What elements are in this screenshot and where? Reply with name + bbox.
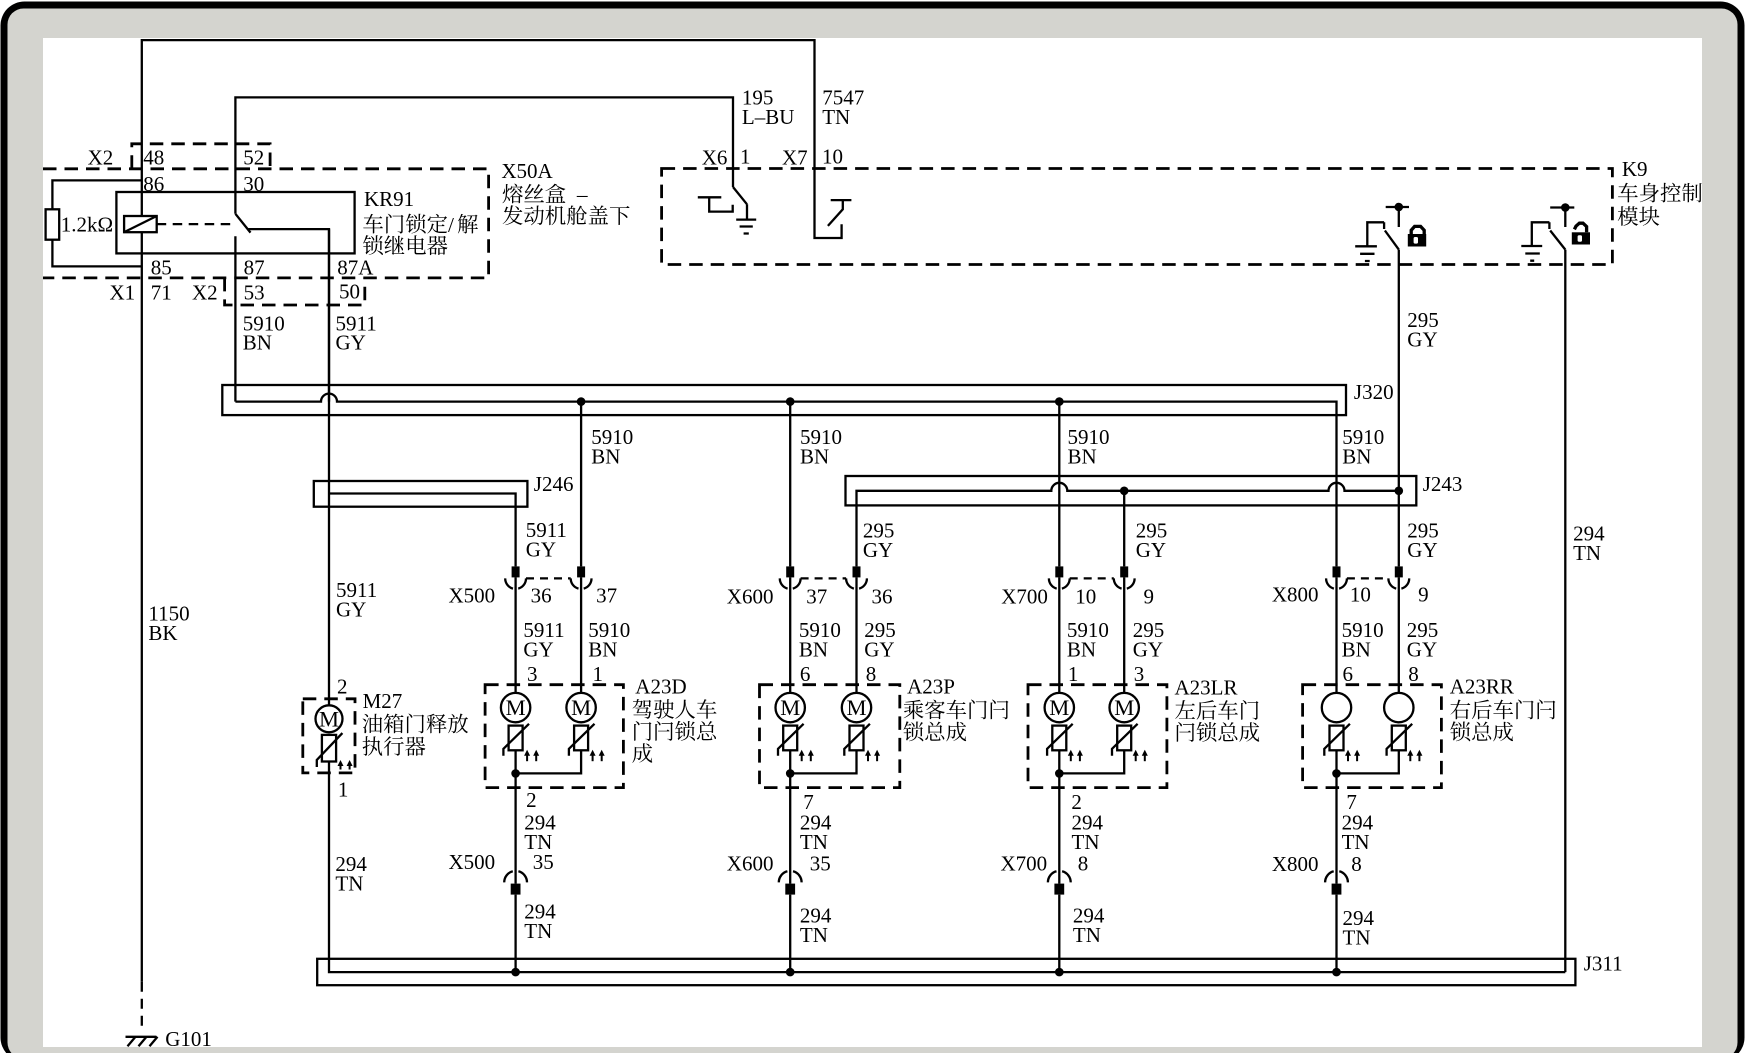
- connector X2 upper box (pins 48 52): [132, 144, 270, 169]
- splice J243 outer box: [846, 476, 1417, 505]
- connector X800 pin 8: [1325, 871, 1334, 882]
- svg-text:87A: 87A: [337, 256, 374, 280]
- svg-text:A23RR: A23RR: [1450, 675, 1514, 699]
- assembly A23RR boundary: [1303, 685, 1442, 788]
- svg-text:35: 35: [533, 850, 554, 874]
- svg-text:X600: X600: [727, 852, 774, 876]
- svg-text:X1: X1: [110, 281, 136, 305]
- svg-text:8: 8: [1351, 852, 1362, 876]
- A23P common return link: [790, 750, 856, 883]
- svg-text:–: –: [576, 183, 588, 207]
- assembly A23P boundary: [760, 685, 900, 788]
- svg-text:48: 48: [143, 146, 164, 170]
- K9 lock switch: fixed contact and ground: [1367, 222, 1384, 246]
- svg-text:8: 8: [1078, 852, 1089, 876]
- ground symbol under X6 switch: [736, 220, 756, 234]
- connector X800 (pins 10 9): [1333, 566, 1341, 577]
- A23P right motor: [842, 693, 871, 722]
- svg-text:BN: BN: [800, 445, 829, 469]
- A23D thermistors: [503, 724, 529, 756]
- svg-text:1: 1: [740, 145, 751, 169]
- A23D right motor: [566, 693, 595, 722]
- svg-text:X50A: X50A: [501, 159, 553, 183]
- svg-text:BN: BN: [588, 638, 617, 662]
- connector X700 pin 8: [1048, 871, 1057, 882]
- K9 unlock switch blade to 294 TN: [1550, 231, 1565, 250]
- assembly A23D boundary: [485, 685, 623, 788]
- A23RR right motor: [1384, 693, 1413, 722]
- K9 lock switch blade to 295 GY: [1385, 231, 1399, 250]
- relay coil KR91: [124, 216, 157, 232]
- svg-text:A23P: A23P: [907, 675, 955, 699]
- svg-text:8: 8: [1408, 662, 1419, 686]
- svg-text:J246: J246: [534, 472, 574, 496]
- svg-text:J311: J311: [1584, 952, 1623, 976]
- connector X500 (pins 36 37): [512, 566, 520, 577]
- ground G101: [126, 1037, 158, 1047]
- svg-text:10: 10: [1350, 583, 1371, 607]
- switch X7 contact and blade: [828, 200, 852, 226]
- svg-text:X700: X700: [1001, 585, 1048, 609]
- svg-text:GY: GY: [526, 538, 556, 562]
- svg-text:X500: X500: [449, 850, 496, 874]
- svg-text:X6: X6: [702, 146, 728, 170]
- svg-text:TN: TN: [1072, 830, 1100, 854]
- svg-text:9: 9: [1418, 583, 1429, 607]
- splice J246 outer box: [314, 481, 528, 507]
- wire: pin 52/30 feed, rail to X6 pin 1 (195 L-BU): [235, 97, 733, 213]
- switch X6 hood ajar (blade and ground): [733, 187, 747, 220]
- resistor R 1.2k ohm loop: [52, 180, 141, 266]
- svg-text:10: 10: [1075, 585, 1096, 609]
- svg-text:M: M: [319, 706, 339, 731]
- relay contact 87A branch: [248, 229, 329, 402]
- svg-text:TN: TN: [800, 830, 828, 854]
- open padlock icon (unlock): [1572, 223, 1590, 244]
- svg-text:J320: J320: [1354, 380, 1394, 404]
- svg-text:M: M: [846, 695, 866, 720]
- module K9 boundary: [662, 169, 1613, 265]
- svg-text:BN: BN: [1067, 638, 1096, 662]
- wire 5910 BN J320 to X600 pin 37: [789, 402, 791, 567]
- svg-text:2: 2: [337, 675, 348, 699]
- closed padlock icon (lock): [1408, 226, 1426, 246]
- splice J311 outer box: [317, 959, 1575, 985]
- svg-text:85: 85: [151, 256, 172, 280]
- A23LR right motor: [1110, 693, 1139, 722]
- connector X600 pin 35: [779, 871, 788, 882]
- K9 unlock switch: feed stub with junction: [1550, 208, 1574, 228]
- svg-text:M: M: [1114, 695, 1134, 720]
- A23D common return link: [516, 750, 582, 883]
- svg-text:BN: BN: [243, 331, 272, 355]
- svg-text:1: 1: [1068, 662, 1079, 686]
- wire 5910 BN J320 to X500 pin 37: [580, 402, 582, 567]
- M27 thermistor: [317, 733, 343, 767]
- A23D left motor: [501, 693, 530, 722]
- svg-text:10: 10: [822, 145, 843, 169]
- svg-text:M: M: [571, 695, 591, 720]
- wire 5910 BN J320 to X700 pin 10: [1058, 402, 1060, 567]
- svg-text:37: 37: [596, 584, 617, 608]
- K9 unlock switch: fixed contact and ground: [1532, 222, 1550, 246]
- svg-text:86: 86: [143, 172, 164, 196]
- svg-text:87: 87: [244, 256, 265, 280]
- svg-text:BN: BN: [1342, 445, 1371, 469]
- splice J320 internal bus wire with hop over 5911 GY: [235, 394, 1336, 483]
- svg-text:2: 2: [526, 788, 537, 812]
- svg-text:X800: X800: [1272, 583, 1319, 607]
- svg-text:8: 8: [866, 662, 877, 686]
- svg-text:M27: M27: [363, 689, 403, 713]
- wire 295 GY K9 lock switch to J243 to X800 pin 9: [1398, 250, 1400, 567]
- wire: relay coil to pin 85, X1 pin 71, 1150 BK down to G101: [141, 232, 143, 982]
- svg-text:TN: TN: [822, 105, 850, 129]
- actuator M27 boundary: [303, 699, 355, 773]
- svg-text:A23LR: A23LR: [1175, 676, 1238, 700]
- svg-text:GY: GY: [523, 638, 553, 662]
- splice J320 outer box: [222, 385, 1346, 415]
- svg-text:1: 1: [338, 778, 349, 802]
- wire: pin 48/86 feed, top rail to X7 pin 10 (7547 TN): [142, 40, 842, 238]
- svg-text:TN: TN: [1343, 926, 1371, 950]
- svg-text:K9: K9: [1622, 157, 1648, 181]
- svg-text:KR91: KR91: [364, 187, 414, 211]
- wire 295 GY J243 to X700 pin 9: [1123, 491, 1125, 567]
- svg-text:GY: GY: [1133, 638, 1163, 662]
- svg-text:X2: X2: [88, 146, 114, 170]
- relay KR91 body: [116, 192, 354, 253]
- svg-text:X600: X600: [727, 585, 774, 609]
- svg-text:J243: J243: [1423, 472, 1463, 496]
- relay coil-armature dashed link: [157, 223, 234, 225]
- svg-text:BN: BN: [1342, 638, 1371, 662]
- svg-text:1.2kΩ: 1.2kΩ: [61, 213, 113, 237]
- A23P thermistors: [778, 724, 804, 756]
- svg-text:GY: GY: [864, 638, 894, 662]
- svg-text:TN: TN: [524, 919, 552, 943]
- svg-text:50: 50: [339, 280, 360, 304]
- svg-text:35: 35: [810, 852, 831, 876]
- connector X700 (pins 10 9): [1055, 566, 1063, 577]
- svg-text:6: 6: [1343, 662, 1354, 686]
- svg-text:GY: GY: [1407, 538, 1437, 562]
- A23RR left motor: [1322, 693, 1351, 722]
- svg-text:A23D: A23D: [635, 675, 686, 699]
- fuel door release actuator M27 motor: [316, 705, 343, 732]
- svg-text:36: 36: [872, 585, 893, 609]
- fuse box X50A boundary: [43, 169, 489, 278]
- svg-text:X800: X800: [1272, 852, 1319, 876]
- svg-text:BN: BN: [799, 638, 828, 662]
- wire 5910 BN from J320 to X800 pin 10 crossing J243: [1335, 483, 1337, 567]
- wire 294 TN K9 unlock switch down to J311: [1564, 250, 1566, 973]
- svg-text:BN: BN: [591, 445, 620, 469]
- svg-text:G101: G101: [165, 1027, 212, 1051]
- svg-text:1: 1: [593, 662, 604, 686]
- svg-text:TN: TN: [335, 872, 363, 896]
- svg-text:GY: GY: [336, 331, 366, 355]
- svg-text:L–BU: L–BU: [742, 105, 795, 129]
- wire 5911 GY from 87A/50 through J320 to J246 and M27: [328, 229, 330, 705]
- svg-text:BN: BN: [1068, 445, 1097, 469]
- svg-text:BK: BK: [148, 621, 177, 645]
- svg-text:3: 3: [1134, 662, 1145, 686]
- K9 lock switch: feed stub with junction: [1386, 207, 1409, 227]
- connector X500 pin 35: [504, 871, 513, 882]
- svg-text:6: 6: [800, 662, 811, 686]
- svg-text:GY: GY: [1407, 638, 1437, 662]
- switch X6 fixed contact bracket: [698, 197, 733, 211]
- svg-text:53: 53: [244, 281, 265, 305]
- svg-text:X700: X700: [1001, 852, 1048, 876]
- relay contact 87 branch, 5910 BN to J320: [234, 236, 236, 401]
- svg-text:52: 52: [243, 146, 264, 170]
- svg-text:X7: X7: [782, 146, 808, 170]
- svg-text:3: 3: [527, 662, 538, 686]
- connector X2 lower box (pins 53 50): [225, 278, 365, 305]
- svg-text:9: 9: [1144, 585, 1155, 609]
- svg-text:M: M: [506, 695, 526, 720]
- wires from connectors into door lock assemblies: [516, 577, 1399, 693]
- svg-text:TN: TN: [800, 923, 828, 947]
- svg-text:TN: TN: [1573, 541, 1601, 565]
- svg-text:36: 36: [531, 584, 552, 608]
- splice J311 internal bus wire 294 TN: [329, 762, 1565, 973]
- svg-text:TN: TN: [1342, 830, 1370, 854]
- A23RR thermistors: [1324, 724, 1350, 756]
- svg-text:71: 71: [151, 281, 172, 305]
- svg-text:GY: GY: [863, 538, 893, 562]
- svg-text:GY: GY: [1407, 328, 1437, 352]
- splice J246 internal bus wire to X500 pin 36: [329, 494, 516, 567]
- A23RR common return link: [1337, 750, 1399, 883]
- A23LR thermistors: [1047, 724, 1073, 756]
- svg-text:TN: TN: [1073, 923, 1101, 947]
- svg-text:M: M: [780, 695, 800, 720]
- A23LR left motor: [1045, 693, 1074, 722]
- svg-text:GY: GY: [336, 598, 366, 622]
- svg-text:X500: X500: [449, 584, 496, 608]
- A23LR common return link: [1059, 750, 1124, 883]
- svg-text:/: /: [448, 213, 454, 237]
- svg-text:30: 30: [243, 172, 264, 196]
- splice J243 internal bus wire with hops over 5910 BN wires: [857, 483, 1399, 567]
- svg-text:37: 37: [806, 585, 827, 609]
- A23P left motor: [776, 693, 805, 722]
- relay switch blade (30 common): [235, 214, 250, 233]
- svg-text:GY: GY: [1136, 538, 1166, 562]
- assembly A23LR boundary: [1028, 685, 1167, 788]
- svg-text:M: M: [1049, 695, 1069, 720]
- svg-text:X2: X2: [192, 281, 218, 305]
- connector X600 (pins 37 36): [786, 566, 794, 577]
